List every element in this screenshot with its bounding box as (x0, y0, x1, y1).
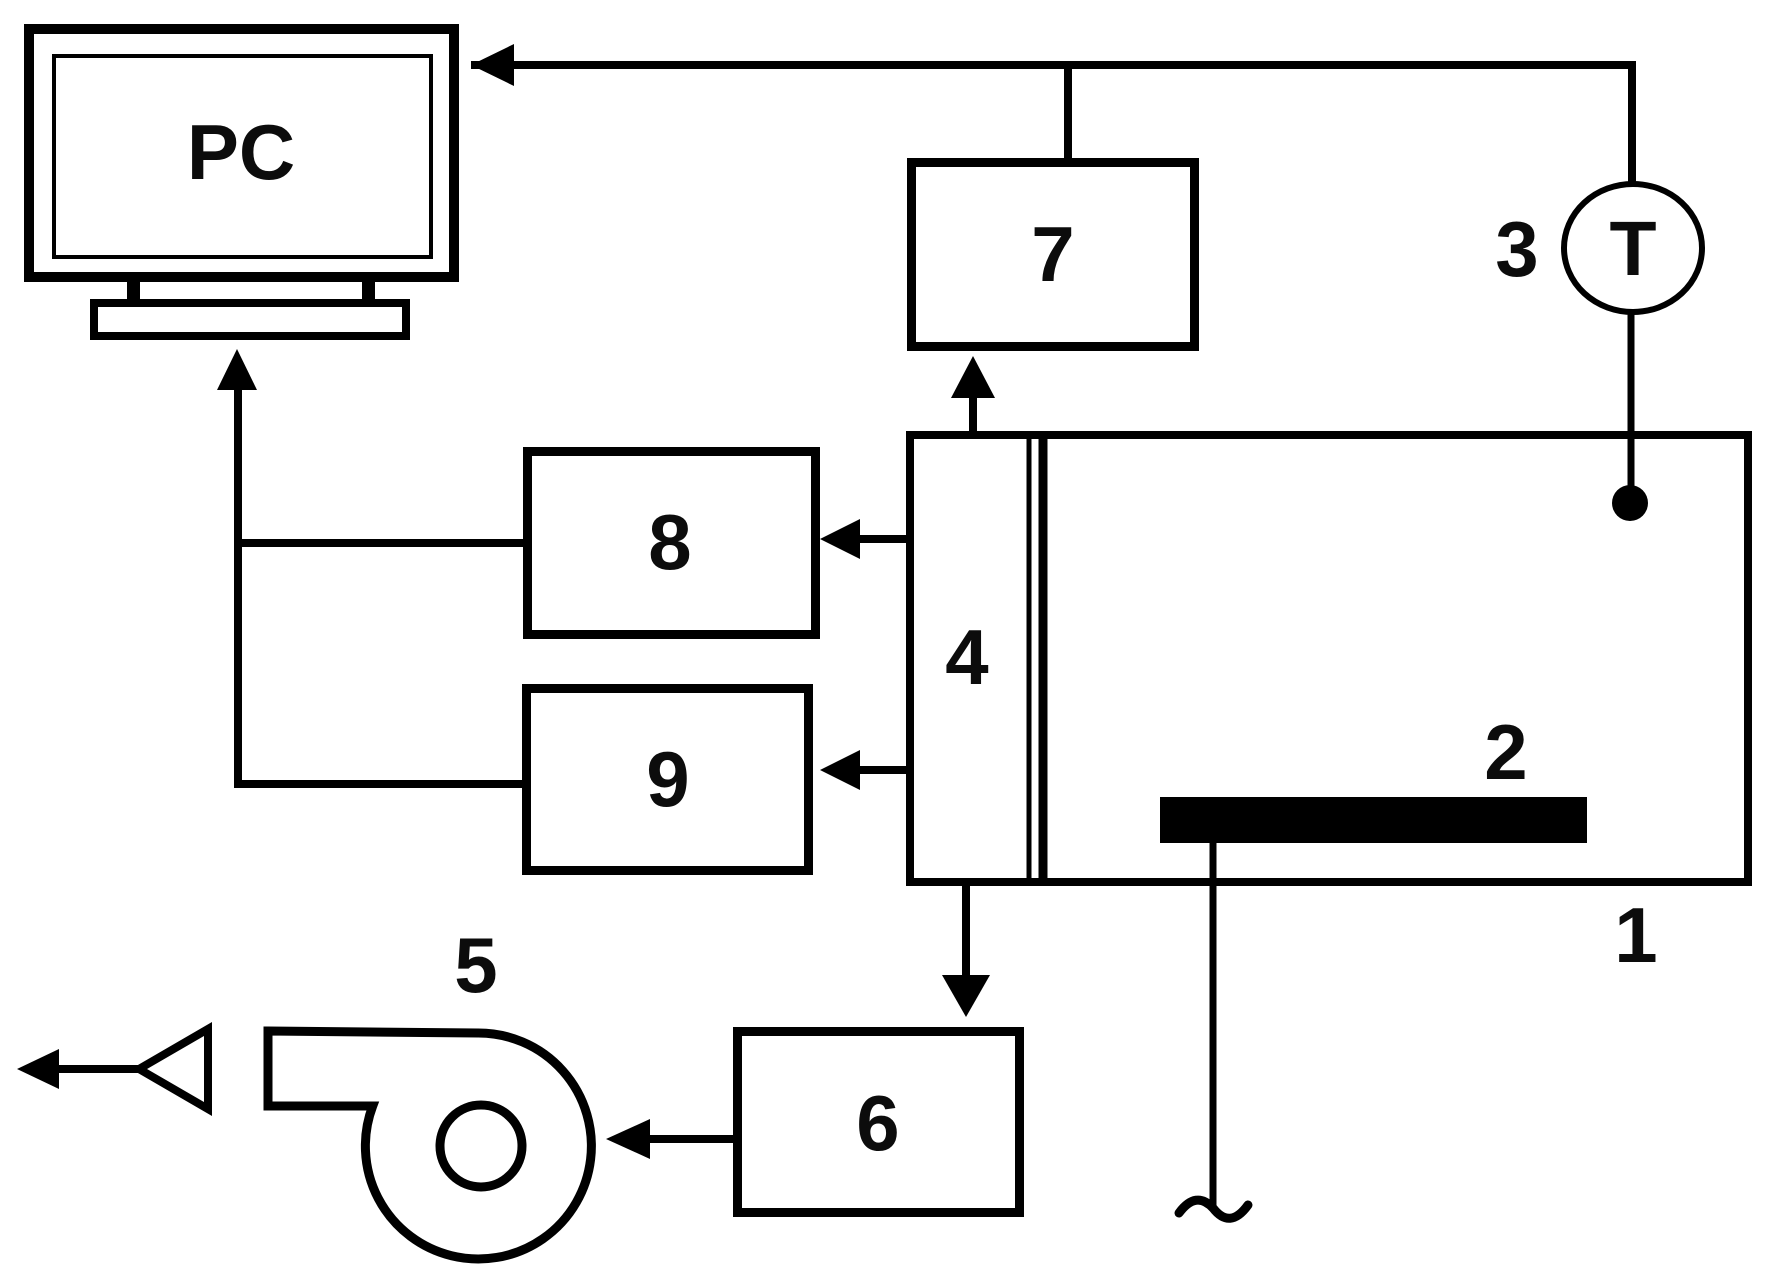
svg-text:6: 6 (856, 1079, 899, 1167)
arrowhead into PC base (217, 349, 257, 390)
wire: box 8 to riser (238, 539, 523, 547)
blower hub circle (440, 1105, 522, 1187)
node dot (1612, 485, 1648, 521)
arrow: box 4 down to box 6 (962, 886, 970, 980)
wire: junction down to box 7 (1064, 65, 1072, 162)
arrowhead into PC (471, 44, 514, 86)
exhaust nozzle triangle (139, 1029, 208, 1109)
chamber 1 (910, 435, 1748, 882)
svg-text:9: 9 (646, 735, 689, 823)
exhaust arrow (55, 1065, 139, 1073)
thermocouple T circle (1564, 184, 1702, 312)
partition thin line (box 4 right wall) (1027, 431, 1032, 886)
arrow: box 4 up to box 7 (969, 392, 977, 435)
box 9 (527, 689, 809, 871)
PC monitor screen (54, 56, 431, 257)
svg-text:5: 5 (454, 921, 497, 1009)
blower 5 body (268, 1031, 591, 1259)
svg-text:4: 4 (945, 613, 988, 701)
box 6 (738, 1032, 1020, 1213)
wire: box 9 to riser (238, 780, 522, 788)
box 8 (528, 452, 816, 635)
PC stand base (94, 303, 406, 336)
box 7 (912, 163, 1195, 347)
svg-text:2: 2 (1484, 708, 1527, 796)
svg-text:1: 1 (1614, 891, 1657, 979)
partition thick line (1039, 431, 1048, 886)
wire: T sensor to PC (top horizontal) (471, 61, 1632, 69)
svg-text:7: 7 (1031, 210, 1074, 298)
PC monitor outer frame (29, 29, 454, 277)
arrow: box 4 to box 9 (856, 766, 909, 774)
AC tilde symbol (1179, 1200, 1248, 1218)
svg-text:8: 8 (648, 498, 691, 586)
arrow: box 4 to box 8 (856, 535, 909, 543)
svg-text:PC: PC (187, 108, 295, 196)
wire: electrode to AC supply (1210, 843, 1217, 1211)
arrow: box 6 to blower (650, 1135, 733, 1143)
wire: T circle down into chamber (1628, 310, 1635, 503)
electrode bar 2 (1160, 797, 1587, 843)
PC stand left leg (127, 282, 140, 299)
riser wire up to PC (234, 384, 242, 788)
svg-text:T: T (1609, 206, 1656, 292)
wire: vertical drop to T circle (1628, 61, 1636, 184)
PC stand right leg (362, 282, 375, 299)
svg-text:3: 3 (1495, 205, 1538, 293)
